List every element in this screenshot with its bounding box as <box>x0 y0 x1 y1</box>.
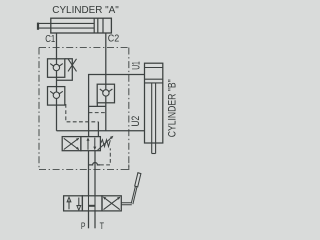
svg-text:U2: U2 <box>130 116 142 127</box>
directional valve left box <box>64 196 83 211</box>
svg-text:C1: C1 <box>45 33 55 45</box>
directional valve parallel arrows <box>69 198 79 210</box>
cylinder B piston <box>145 79 163 83</box>
cylinder B rod end <box>152 153 156 155</box>
pilot line to sequence valve spring (dashed) <box>100 148 110 165</box>
wire sequence valve port B dropper <box>97 122 99 137</box>
manifold boundary (dash-dot border) <box>39 48 129 170</box>
sequence valve U1 body left box <box>62 137 81 151</box>
orifice X symbol <box>68 59 77 72</box>
wire P line between valves <box>88 151 90 196</box>
hand lever shaft <box>131 186 137 204</box>
sequence valve adjustment arrow <box>98 137 113 150</box>
check valve 2 poppet <box>53 92 59 98</box>
pilot line cross branch (dashed) <box>89 112 106 114</box>
directional valve crossed arrows <box>104 197 120 209</box>
sequence valve straight arrows <box>88 138 95 150</box>
svg-text:CYLINDER "B": CYLINDER "B" <box>166 79 178 137</box>
wire T line between valves <box>94 151 96 196</box>
check valve 3 seat <box>100 89 113 92</box>
directional valve centre box <box>82 196 102 211</box>
directional valve centre tandem bar <box>89 196 96 211</box>
hand lever arm <box>122 203 132 205</box>
wire U2 line <box>57 130 145 132</box>
pilot line check2 to sequence valve (dashed) <box>66 104 99 122</box>
wire T port line <box>94 211 96 228</box>
sequence valve spring <box>101 140 111 147</box>
check valve 2 square <box>48 87 65 106</box>
wire C1 main line <box>56 33 58 131</box>
directional valve right box <box>102 196 121 211</box>
hand lever knob <box>135 173 141 187</box>
cylinder B rod <box>152 83 156 154</box>
wire check3 lower branch <box>89 103 106 107</box>
cylinder B head divider <box>145 67 163 69</box>
check valve 1 seat <box>50 64 63 67</box>
cylinder A rod <box>38 23 94 28</box>
sequence valve right box <box>81 137 101 151</box>
sequence valve crossed arrows <box>64 138 79 149</box>
check valve 3 square <box>97 84 114 103</box>
check valve 3 poppet <box>103 90 109 96</box>
wire C2 line <box>105 33 107 131</box>
cylinder A piston <box>94 18 98 33</box>
check valve 1 poppet <box>53 64 59 70</box>
cylinder A body <box>51 18 112 33</box>
check valve 1 (pilot operated) square <box>48 59 65 78</box>
svg-text:CYLINDER "A": CYLINDER "A" <box>52 4 119 16</box>
wire U1 line / P upper branch <box>89 75 145 137</box>
svg-text:U1: U1 <box>131 61 143 70</box>
check valve 2 seat <box>50 91 63 94</box>
cylinder B body <box>145 63 163 143</box>
cylinder A rod end cap <box>37 23 39 30</box>
svg-text:C2: C2 <box>108 32 120 44</box>
svg-text:P: P <box>81 221 86 232</box>
wire check1 bypass loop <box>57 59 73 80</box>
wire pilot sense with crossover hump <box>89 162 101 164</box>
svg-text:T: T <box>100 221 105 232</box>
wire P port line <box>88 211 90 228</box>
cylinder A head divider <box>102 18 104 33</box>
